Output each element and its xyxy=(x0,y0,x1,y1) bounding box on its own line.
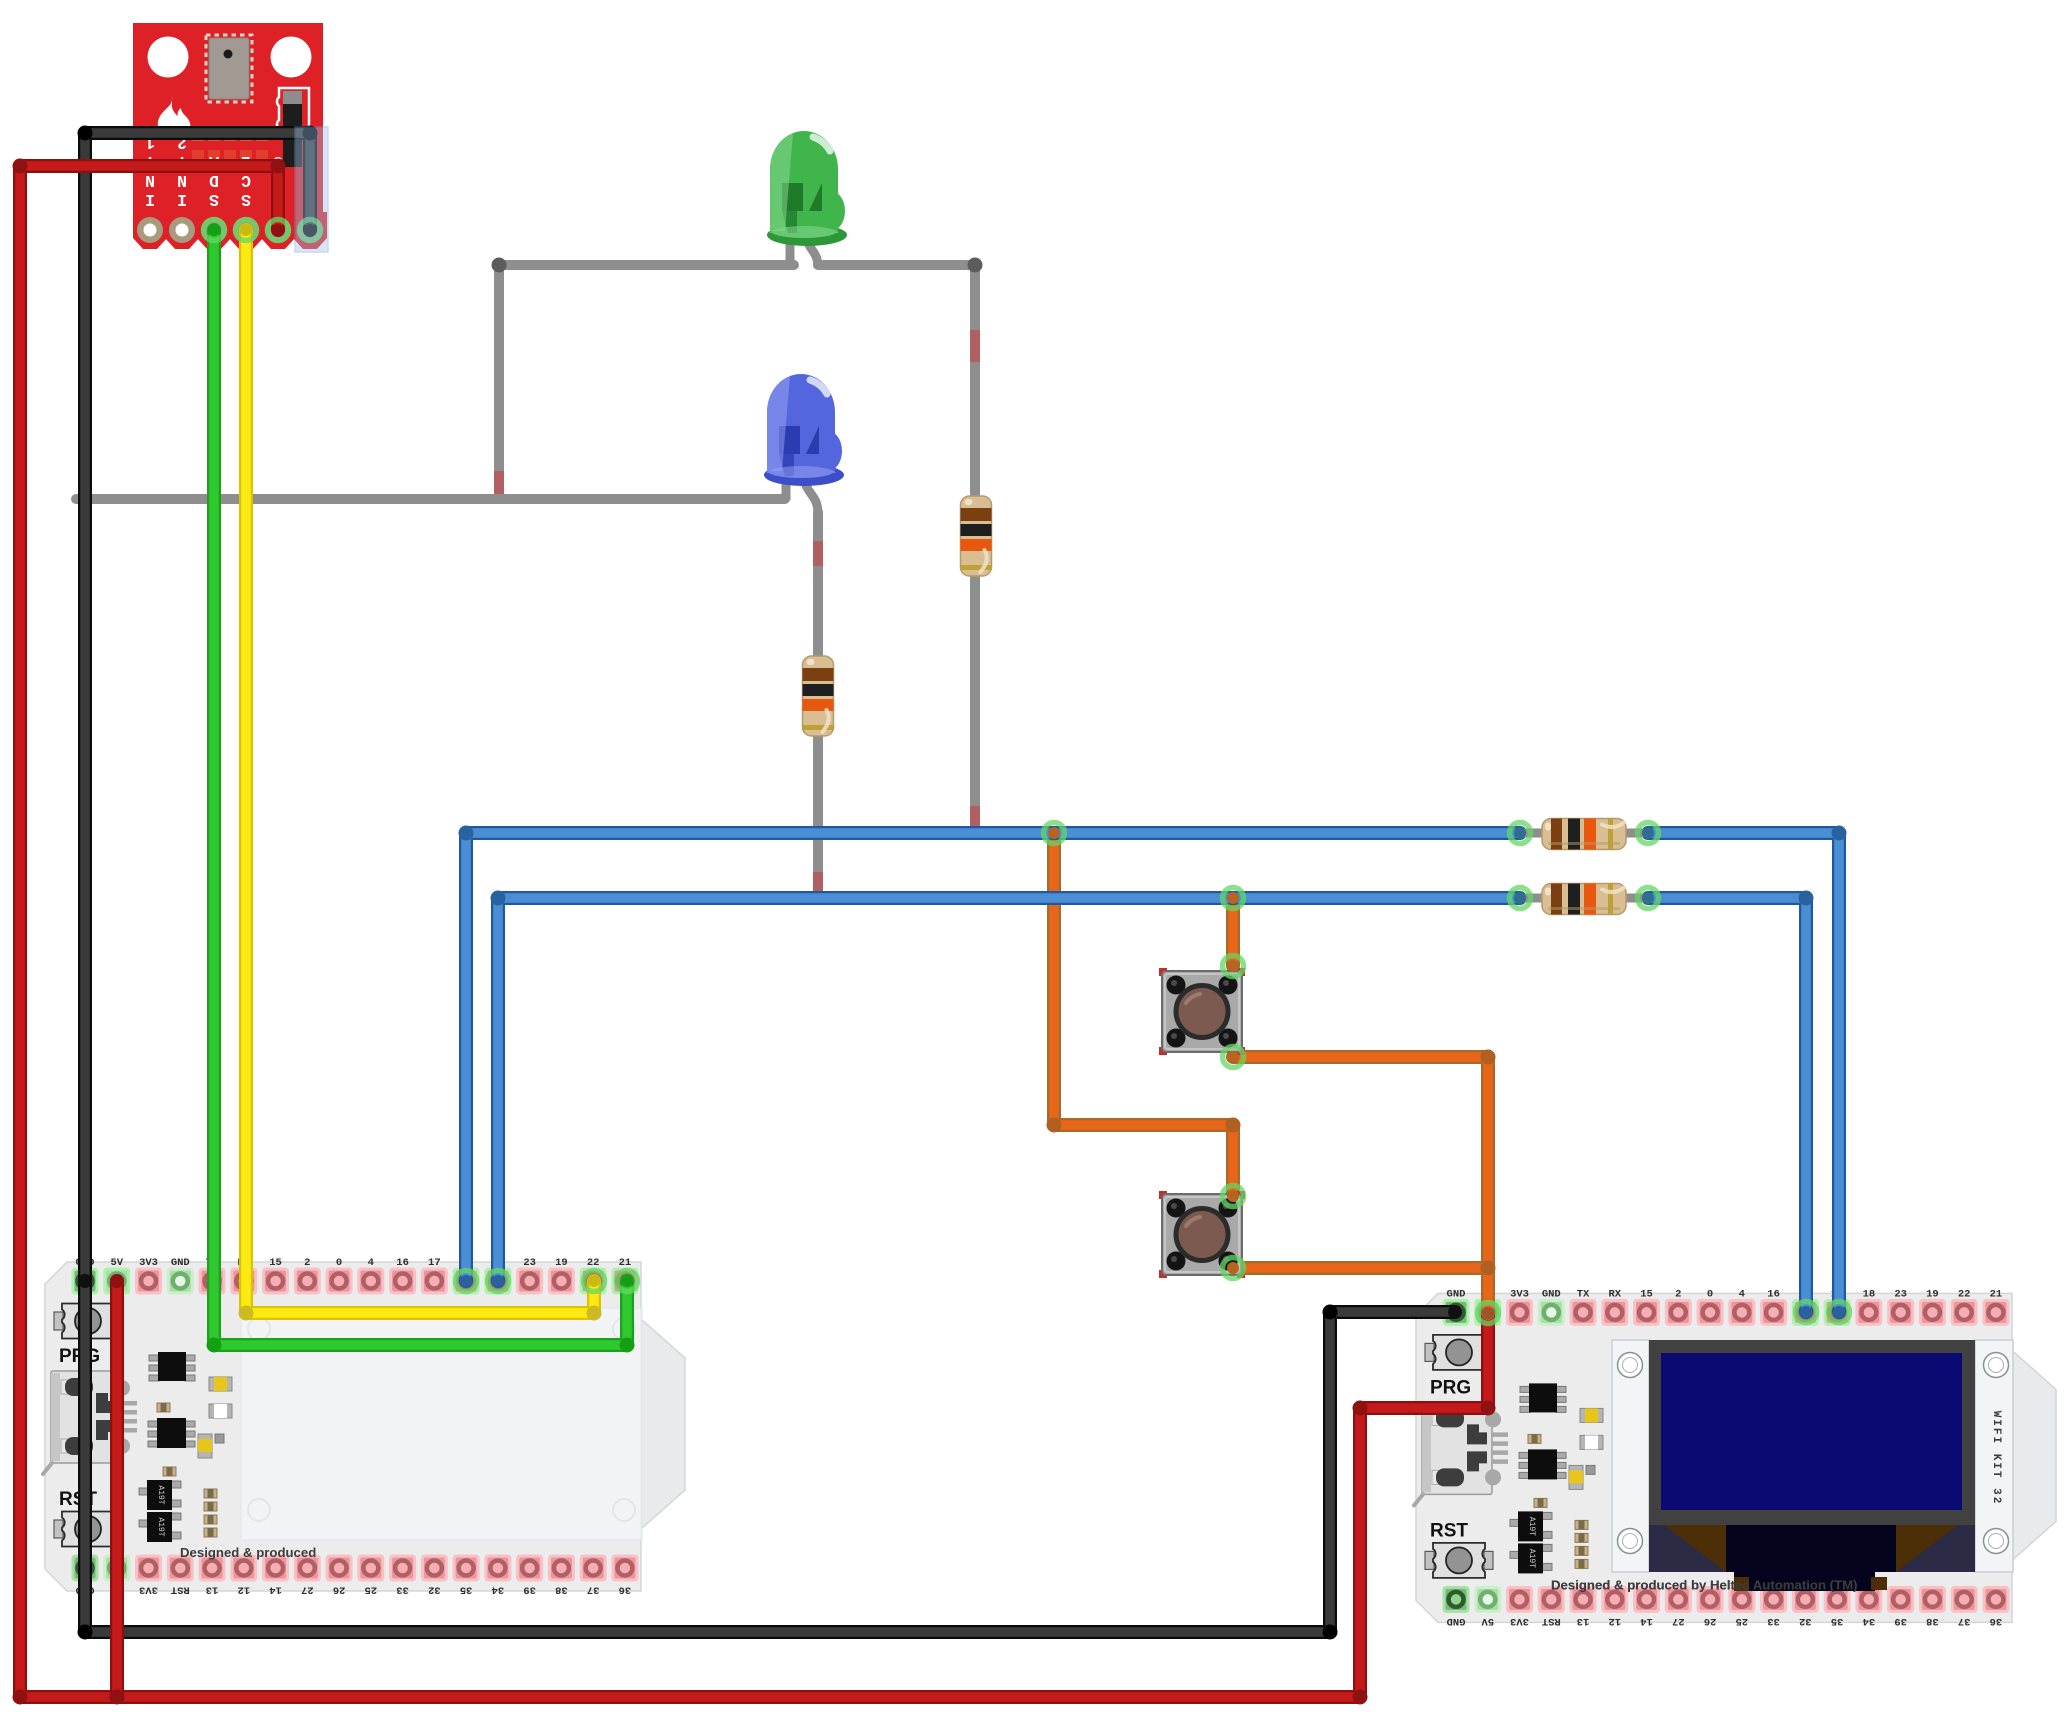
ESP32 board left: SOT-23 transistor 1 xyxy=(139,1480,181,1510)
svg-text:A19T: A19T xyxy=(156,1485,165,1504)
svg-text:19: 19 xyxy=(555,1257,568,1269)
sensor board silkscreen pads xyxy=(192,128,268,141)
wire: button S1 to GPIO (orange) xyxy=(1226,898,1240,966)
OLED mounting holes xyxy=(1618,1353,2009,1554)
svg-text:A19T: A19T xyxy=(1527,1549,1536,1568)
svg-text:16: 16 xyxy=(1767,1288,1780,1300)
connection highlights: button pins xyxy=(1223,956,1244,1279)
pushbutton S1 xyxy=(1159,968,1245,1055)
svg-text:38: 38 xyxy=(1926,1615,1939,1627)
resistor R4 leads xyxy=(1520,894,1648,903)
ESP32 board right: SOT-23 transistor 2 xyxy=(1510,1543,1552,1573)
ESP32 board left: regulator U-B xyxy=(148,1418,195,1448)
svg-text:0: 0 xyxy=(336,1257,342,1269)
wire: green LED anode segment xyxy=(818,260,975,270)
SCL wire bend points xyxy=(239,1306,602,1321)
svg-text:12: 12 xyxy=(237,1584,250,1596)
svg-text:3V3: 3V3 xyxy=(139,1584,158,1596)
connection highlights: sensor pins xyxy=(204,220,321,241)
5V wire bend points xyxy=(13,159,1496,1705)
connection highlights: resistor R3/R4 ends xyxy=(1510,823,1659,909)
ESP32 board right: chip resistor 2 xyxy=(1534,1498,1547,1507)
svg-text:32: 32 xyxy=(428,1584,441,1596)
ESP32 board left: RST button xyxy=(54,1489,122,1547)
svg-text:26: 26 xyxy=(1704,1615,1717,1627)
svg-text:26: 26 xyxy=(333,1584,346,1596)
junction node: green LED anode xyxy=(968,258,983,273)
svg-text:GND: GND xyxy=(1447,1288,1466,1300)
wire: GPIO line 1 (blue) right xyxy=(1648,833,1839,1312)
svg-text:27: 27 xyxy=(1672,1615,1685,1627)
leg end markers xyxy=(494,471,504,494)
svg-text:33: 33 xyxy=(1767,1615,1780,1627)
ESP32 board right: yellow LED xyxy=(1580,1408,1603,1422)
ESP32 board right: PRG button xyxy=(1425,1335,1493,1399)
LED D1 green xyxy=(767,131,847,246)
resistor R2 (green LED series) xyxy=(961,496,992,576)
wire: button S1 to GND (orange) xyxy=(1233,1057,1488,1268)
svg-text:0: 0 xyxy=(1707,1288,1713,1300)
OLED flex tab xyxy=(1734,1570,1887,1591)
ESP32 board left: voltage regulator U-A xyxy=(149,1352,195,1381)
svg-text:N: N xyxy=(145,171,155,190)
OLED flex cable area xyxy=(1649,1525,1975,1572)
ESP32 board left: micro-USB connector xyxy=(43,1371,137,1474)
svg-text:12: 12 xyxy=(1608,1615,1621,1627)
svg-text:16: 16 xyxy=(396,1257,409,1269)
SparkFun sensor breakout board (red PCB) xyxy=(133,23,323,212)
svg-text:4: 4 xyxy=(1739,1288,1745,1300)
ESP32 board right: micro-USB connector xyxy=(1414,1402,1508,1505)
svg-text:GND: GND xyxy=(171,1257,190,1269)
wire: green LED cathode segment xyxy=(499,260,794,270)
svg-text:33: 33 xyxy=(396,1584,409,1596)
faint OLED footprint outline on left board xyxy=(241,1308,642,1540)
svg-text:36: 36 xyxy=(619,1584,632,1596)
svg-text:25: 25 xyxy=(365,1584,378,1596)
ESP32 board right: top pin header xyxy=(1443,1288,2010,1326)
wire: button S2 to GPIO (orange) xyxy=(1054,833,1233,1196)
svg-text:15: 15 xyxy=(1640,1288,1653,1300)
wire: GND net (black) xyxy=(85,133,1454,1632)
svg-text:21: 21 xyxy=(619,1257,632,1269)
capacitor on sensor board xyxy=(277,88,309,167)
svg-text:27: 27 xyxy=(301,1584,314,1596)
sensor pin labels xyxy=(145,133,315,209)
OLED module white side strips xyxy=(1612,1340,2013,1572)
svg-text:C: C xyxy=(241,171,251,190)
sensor board castellated edge xyxy=(133,212,327,249)
ESP32 board left: top pin header xyxy=(72,1257,639,1295)
ESP32 board right: regulator U-B xyxy=(1519,1449,1566,1479)
svg-text:37: 37 xyxy=(587,1584,600,1596)
wire: 5V net (red) xyxy=(20,166,1488,1697)
svg-text:35: 35 xyxy=(1831,1615,1844,1627)
wire: resistor R2 legs (green LED) xyxy=(970,265,980,833)
ESP32 board left: PRG button xyxy=(54,1304,122,1368)
wire: resistor R1 legs (blue LED) xyxy=(813,512,823,898)
svg-text:22: 22 xyxy=(587,1257,600,1269)
svg-text:2: 2 xyxy=(304,1257,310,1269)
svg-text:14: 14 xyxy=(1640,1615,1653,1627)
blue wire bend points xyxy=(459,826,1847,906)
wire: GPIO line 2 (blue) right xyxy=(1648,898,1806,1312)
ESP32 board left: yellow LED 2 xyxy=(198,1434,224,1458)
svg-text:N: N xyxy=(177,171,187,190)
svg-text:GND: GND xyxy=(1447,1615,1466,1627)
svg-text:TX: TX xyxy=(1577,1288,1590,1300)
svg-text:23: 23 xyxy=(523,1257,536,1269)
svg-text:WIFI KIT 32: WIFI KIT 32 xyxy=(1990,1411,2002,1506)
sensor board mounting holes xyxy=(148,37,312,78)
svg-text:D: D xyxy=(209,171,219,190)
svg-text:32: 32 xyxy=(1799,1615,1812,1627)
svg-text:34: 34 xyxy=(492,1584,505,1596)
svg-text:A19T: A19T xyxy=(156,1517,165,1536)
ESP32 board right: yellow LED 2 xyxy=(1569,1465,1595,1489)
svg-text:38: 38 xyxy=(555,1584,568,1596)
orange wire bend points xyxy=(1047,1050,1496,1276)
ESP32 board left: yellow LED xyxy=(209,1377,232,1391)
ESP32 board left: white LED xyxy=(209,1404,232,1418)
svg-text:13: 13 xyxy=(206,1584,219,1596)
wire: SCL (yellow) xyxy=(246,230,594,1313)
OLED screen xyxy=(1661,1353,1962,1510)
resistor R3 xyxy=(1542,819,1626,850)
wire: GPIO line 2 (blue) left xyxy=(498,898,1520,1281)
svg-text:3V3: 3V3 xyxy=(1510,1615,1529,1627)
svg-text:S: S xyxy=(209,190,219,209)
SparkFun flame logo xyxy=(158,96,191,140)
connection highlights: right board pins xyxy=(1448,1302,1850,1324)
svg-text:14: 14 xyxy=(269,1584,282,1596)
wire: SDA (green) xyxy=(214,230,627,1345)
svg-text:PRG: PRG xyxy=(1430,1377,1471,1398)
svg-text:RST: RST xyxy=(1542,1615,1561,1627)
ESP32 board left: chip resistor 2 xyxy=(163,1467,176,1476)
svg-text:Designed & produced by Heltec: Designed & produced by Heltec Automation… xyxy=(1551,1577,1858,1592)
ESP32 board right: bottom pin header xyxy=(1443,1586,2010,1627)
svg-text:RST: RST xyxy=(1430,1520,1468,1541)
svg-text:19: 19 xyxy=(1926,1288,1939,1300)
svg-text:GND: GND xyxy=(1542,1288,1561,1300)
ESP32 board right: SOT-23 transistor 1 xyxy=(1510,1511,1552,1541)
OLED dark frame xyxy=(1649,1340,1975,1525)
ESP32 board left: passives column xyxy=(204,1489,217,1537)
svg-text:35: 35 xyxy=(460,1584,473,1596)
svg-text:25: 25 xyxy=(1736,1615,1749,1627)
svg-text:3V3: 3V3 xyxy=(1510,1288,1529,1300)
ESP32 board right: passives column xyxy=(1575,1520,1588,1568)
svg-text:A19T: A19T xyxy=(1527,1517,1536,1536)
svg-text:39: 39 xyxy=(523,1584,536,1596)
svg-text:36: 36 xyxy=(1990,1615,2003,1627)
svg-text:39: 39 xyxy=(1894,1615,1907,1627)
svg-text:15: 15 xyxy=(269,1257,282,1269)
pushbutton S2 xyxy=(1159,1191,1245,1278)
blue LED legs xyxy=(786,472,818,514)
svg-text:3V3: 3V3 xyxy=(139,1257,158,1269)
svg-text:2: 2 xyxy=(1675,1288,1681,1300)
svg-text:RX: RX xyxy=(1608,1288,1621,1300)
svg-text:22: 22 xyxy=(1958,1288,1971,1300)
ESP32 board left: SOT-23 transistor 2 xyxy=(139,1512,181,1542)
svg-text:Designed & produced: Designed & produced xyxy=(180,1545,316,1560)
ESP32 board right: white LED xyxy=(1580,1435,1603,1449)
svg-text:18: 18 xyxy=(1863,1288,1876,1300)
ESP32 board left: chip resistor xyxy=(157,1403,170,1412)
wire: 5V branch to left board xyxy=(110,1281,124,1697)
sensor IC U1 xyxy=(206,35,252,102)
selection highlight box on sensor GND pin xyxy=(295,127,328,252)
wire: button S2 to GND (orange) xyxy=(1233,1268,1488,1313)
svg-text:S: S xyxy=(241,190,251,209)
svg-text:17: 17 xyxy=(428,1257,441,1269)
ESP32 board right: chip resistor xyxy=(1528,1434,1541,1443)
resistor R4 xyxy=(1542,884,1626,915)
ESP32 board left: PCB body xyxy=(45,1262,685,1591)
wire: cathode rail drop xyxy=(494,265,504,496)
ESP32 board right: RST button xyxy=(1425,1520,1493,1578)
svg-text:5V: 5V xyxy=(1481,1615,1494,1627)
svg-text:I: I xyxy=(177,190,187,209)
svg-text:37: 37 xyxy=(1958,1615,1971,1627)
connection highlights: left board pins xyxy=(78,1271,638,1292)
sensor pin holes xyxy=(137,217,323,243)
resistor R3 leads xyxy=(1520,829,1648,838)
svg-text:I: I xyxy=(145,190,155,209)
svg-text:23: 23 xyxy=(1894,1288,1907,1300)
svg-text:5V: 5V xyxy=(110,1257,123,1269)
svg-text:13: 13 xyxy=(1577,1615,1590,1627)
wire: LED cathode rail to GND xyxy=(76,494,785,504)
svg-text:34: 34 xyxy=(1863,1615,1876,1627)
LED D2 blue xyxy=(764,374,844,486)
junction node: green LED cathode xyxy=(492,258,507,273)
svg-text:4: 4 xyxy=(368,1257,374,1269)
connection highlights: orange taps on blue wires xyxy=(1044,823,1244,909)
svg-text:21: 21 xyxy=(1990,1288,2003,1300)
ESP32 board right: voltage regulator U-A xyxy=(1520,1383,1566,1412)
svg-text:RST: RST xyxy=(171,1584,190,1596)
ESP32 board left: bottom pin header xyxy=(72,1555,639,1596)
resistor R1 (blue LED series) xyxy=(803,656,834,736)
wire: GPIO line 1 (blue) left xyxy=(466,833,1520,1281)
green LED legs xyxy=(790,230,818,268)
GND wire bend points xyxy=(78,126,1338,1640)
SDA wire bend points xyxy=(207,1338,635,1353)
ESP32 board right: PCB body xyxy=(1416,1293,2056,1622)
